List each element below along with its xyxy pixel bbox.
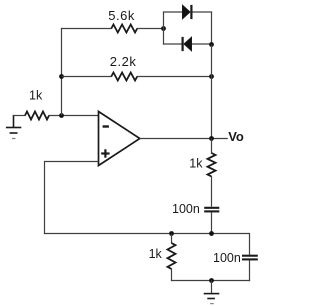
node tank left junction (169, 231, 174, 236)
ground (bottom) (204, 294, 220, 304)
node ground junction (209, 278, 214, 283)
wire ground stub (211, 281, 213, 294)
wire to R5 (171, 234, 173, 244)
wire R1 to op-amp inverting input (49, 115, 99, 117)
wire to D1 anode (163, 11, 183, 13)
svg-text:Vo: Vo (228, 129, 244, 144)
svg-text:1k: 1k (189, 157, 203, 171)
wire D2 anode to right rail (191, 43, 212, 45)
wire tank top rail (44, 233, 250, 235)
wire non-inverting input (45, 161, 99, 163)
node junction 2.2k tap (59, 74, 64, 79)
svg-text:1k: 1k (149, 247, 163, 261)
wire bottom return rail (171, 280, 250, 282)
wire right rail to output node (211, 77, 213, 139)
wire diode loop left side (163, 12, 165, 45)
wire ground to R1 (13, 115, 26, 117)
wire to C2 (249, 233, 251, 255)
resistor R4 1k (right vertical) (208, 153, 216, 177)
ground (left) (6, 115, 21, 139)
wire C2 to bottom (249, 261, 251, 282)
wire top-left to R2 (61, 28, 112, 30)
svg-text:2.2k: 2.2k (110, 54, 137, 69)
node 2.2k right junction (209, 74, 214, 79)
wire op-amp output to Vo (140, 138, 228, 140)
wire to D2 cathode (163, 43, 183, 45)
wire R5 to bottom (171, 269, 173, 282)
wire node to R3 (62, 76, 112, 78)
resistor R5 1k (bottom vertical) (168, 243, 176, 269)
node tank middle junction (209, 231, 214, 236)
wire R3 to right rail (137, 76, 212, 78)
node diode-pair left junction (161, 26, 166, 31)
diode D1 (top, anode left) (183, 5, 192, 19)
wire vertical feedback (left) (61, 28, 63, 116)
wire feedback left vertical (44, 161, 46, 234)
svg-text:100n: 100n (213, 251, 241, 265)
wire R4 to C1 (211, 176, 213, 207)
diode D2 (bottom, anode right) (183, 37, 192, 51)
node junction (inverting input) (59, 113, 64, 118)
wire C1 to bottom rail (211, 213, 213, 234)
svg-text:5.6k: 5.6k (108, 8, 135, 23)
node Vo (209, 136, 214, 141)
resistor R1 1k (left) (25, 112, 49, 120)
wire D1 cathode to right rail (191, 11, 212, 13)
svg-text:100n: 100n (172, 202, 200, 216)
wire diode loop right side (211, 12, 213, 45)
resistor R2 5.6k (111, 25, 137, 33)
node diode-pair right junction (209, 42, 214, 47)
capacitor C1 100n (series) (204, 208, 219, 212)
wire right rail upper (211, 45, 213, 77)
resistor R3 2.2k (111, 73, 137, 81)
wire Vo node to R4 (211, 139, 213, 154)
op-amp U1 (99, 112, 140, 166)
wire R2 to diode pair (137, 28, 164, 30)
capacitor C2 100n (shunt) (242, 256, 258, 260)
svg-text:1k: 1k (29, 88, 43, 102)
